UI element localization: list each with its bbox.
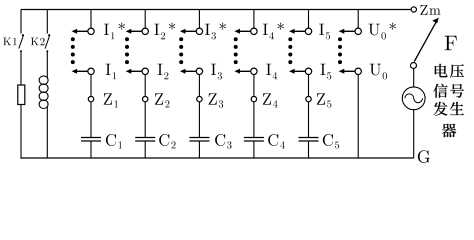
node I3 terminal bbox=[196, 68, 202, 74]
capacitor C5 bbox=[299, 137, 319, 139]
tap dots bbox=[179, 37, 183, 41]
resistor (left branch box) bbox=[18, 85, 25, 105]
switch K1 bbox=[20, 10, 22, 34]
wire bbox=[253, 141, 255, 158]
node Zm terminal bbox=[411, 7, 416, 12]
tap dots bbox=[71, 37, 75, 41]
wire bbox=[144, 75, 146, 97]
node I3* terminal bbox=[198, 10, 200, 29]
wire top bus bbox=[21, 9, 411, 11]
node I4 terminal bbox=[251, 68, 257, 74]
node Z3 terminal bbox=[197, 96, 202, 101]
node I2* terminal bbox=[144, 10, 146, 29]
node I1* terminal bbox=[90, 10, 92, 29]
wire bbox=[308, 75, 310, 97]
capacitor C3 bbox=[189, 137, 209, 139]
wire bottom bus (net G) bbox=[20, 157, 413, 159]
wire bbox=[20, 105, 22, 159]
node Z4 terminal bbox=[251, 96, 256, 101]
node U0* terminal bbox=[357, 10, 359, 29]
capacitor C2 bbox=[135, 137, 155, 139]
node I5 terminal bbox=[305, 68, 311, 74]
wire bbox=[46, 51, 48, 78]
node U0 terminal bbox=[355, 68, 361, 74]
wire bbox=[198, 75, 200, 97]
wire bbox=[253, 102, 255, 138]
probe terminal bbox=[411, 63, 417, 69]
node G label bbox=[418, 150, 430, 163]
node I2 terminal bbox=[142, 68, 148, 74]
wire bbox=[198, 102, 200, 138]
wire bbox=[413, 110, 415, 158]
node I1 terminal bbox=[88, 68, 94, 74]
wire bbox=[46, 107, 48, 159]
wire bbox=[253, 75, 255, 97]
wire bbox=[90, 75, 92, 97]
wire bbox=[144, 102, 146, 138]
wire bbox=[357, 75, 359, 159]
AC signal source bbox=[402, 87, 425, 110]
node Z5 terminal bbox=[306, 96, 311, 101]
node I4* terminal bbox=[253, 10, 255, 29]
node Z1 terminal bbox=[88, 96, 93, 101]
wire bbox=[198, 141, 200, 158]
node Z2 terminal bbox=[143, 96, 148, 101]
tap dots bbox=[338, 37, 342, 41]
wire bbox=[144, 141, 146, 158]
capacitor C1 bbox=[81, 137, 101, 139]
wire bbox=[90, 141, 92, 158]
switch K2 bbox=[46, 10, 48, 34]
wire bbox=[308, 141, 310, 158]
caption: voltage signal generator bbox=[435, 64, 448, 77]
tap dots bbox=[125, 37, 129, 41]
tap dots bbox=[288, 37, 292, 41]
inductor coil bbox=[39, 76, 48, 85]
wire bbox=[90, 102, 92, 138]
wire bbox=[413, 69, 415, 88]
probe arrow F bbox=[414, 22, 436, 62]
wire bbox=[308, 102, 310, 138]
node I5 terminal bbox=[308, 10, 310, 29]
wire bbox=[20, 51, 22, 85]
tap dots bbox=[234, 37, 238, 41]
capacitor C4 bbox=[244, 137, 264, 139]
